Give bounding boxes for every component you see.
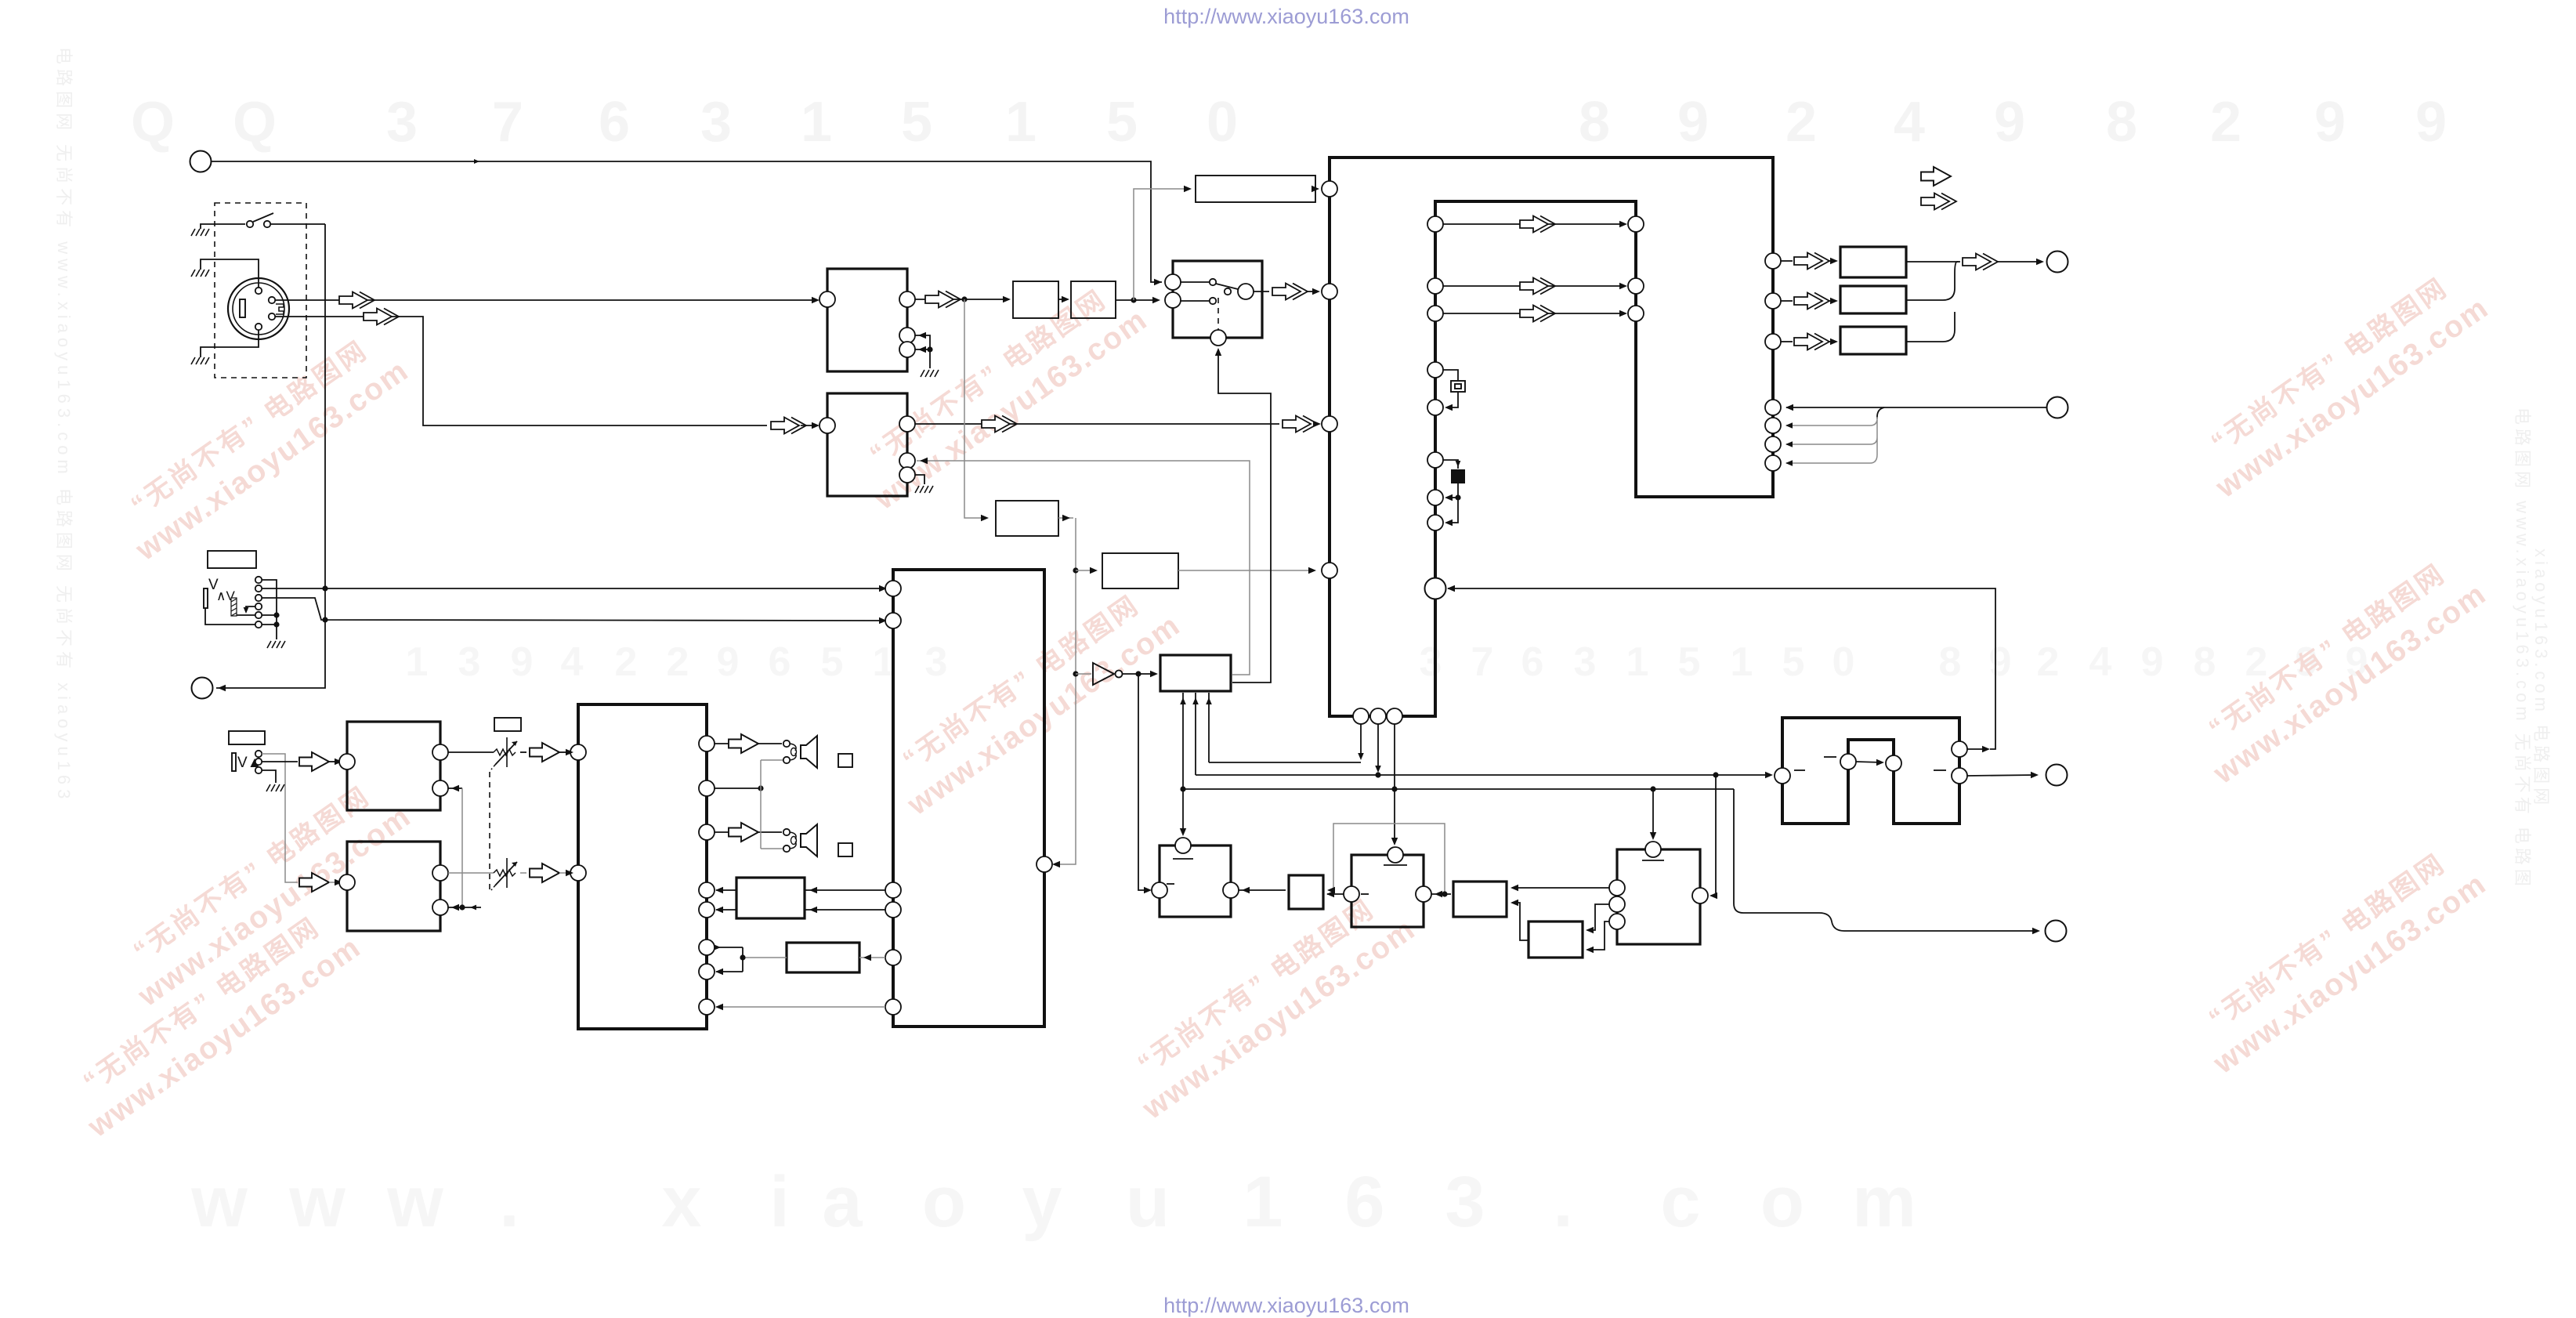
svg-text:9: 9: [2415, 91, 2447, 154]
J right pin: [1692, 888, 1708, 903]
svg-text:i: i: [769, 1162, 790, 1242]
U1 bite-right pins: [1628, 216, 1644, 232]
svg-text:9: 9: [1989, 639, 2012, 685]
svg-text:Q: Q: [131, 91, 175, 154]
G minus marks: [1384, 864, 1407, 866]
P1 left pin: [1775, 768, 1790, 784]
SB contact c1: [1210, 279, 1216, 285]
F right pin: [1223, 882, 1239, 898]
ground G1: [191, 229, 209, 236]
J left pins: [1609, 880, 1625, 896]
SB dashed control link: [1217, 298, 1219, 330]
left block U4: [578, 704, 707, 1029]
svg-text:u: u: [1126, 1162, 1170, 1242]
volume VR1: [491, 737, 517, 769]
rect A deemphasis: [1013, 281, 1058, 318]
svg-text:3: 3: [458, 639, 481, 685]
output merge wires: [1906, 261, 1959, 263]
svg-text:3: 3: [1574, 639, 1597, 685]
wire from x415 bus down to T2: [216, 224, 325, 688]
wire U4 to SP1: [715, 743, 782, 744]
svg-text:5: 5: [1678, 639, 1701, 685]
svg-text:0: 0: [1833, 639, 1855, 685]
feedback wire main: [1786, 407, 2046, 408]
XLR notch: [276, 304, 284, 314]
svg-text:3: 3: [700, 91, 732, 154]
svg-text:9: 9: [2314, 91, 2346, 154]
switch block SB: [1173, 261, 1262, 338]
rect H: [1289, 875, 1323, 909]
wire XLR pin3 to block B2: [275, 317, 767, 425]
filter rect R3: [1840, 327, 1906, 354]
label box LB1: [208, 551, 256, 568]
ground G4: [267, 641, 285, 648]
svg-text:2: 2: [615, 639, 638, 685]
wire inverter out to rect D: [1123, 673, 1156, 675]
bottom wire U3 to U4: [716, 1006, 885, 1008]
line to terminal T6: [1734, 789, 2037, 931]
L1/L2 feedback link: [448, 788, 462, 789]
rect C: [996, 501, 1058, 536]
wire contact6 sleeve: [205, 608, 255, 625]
jack J3 contacts: [255, 751, 262, 757]
block F: [1160, 845, 1231, 917]
B2 ground: [915, 475, 924, 484]
ganged dashed link: [489, 772, 490, 889]
svg-text:7: 7: [1471, 639, 1494, 685]
svg-text:w: w: [386, 1162, 443, 1242]
block B2: [827, 393, 907, 496]
wire P1 to terminal T5: [1967, 775, 2035, 776]
watermark faint vertical side text: [54, 47, 2551, 890]
wire switch to bus: [270, 223, 325, 225]
filter rect R1: [1840, 247, 1906, 277]
J jog wires to K: [1587, 904, 1609, 930]
wire B to switch: [1116, 299, 1158, 301]
svg-text:7: 7: [492, 91, 523, 154]
wire G right to rect I: [1431, 893, 1451, 895]
svg-text:http://www.xiaoyu163.com: http://www.xiaoyu163.com: [1163, 1294, 1409, 1317]
wire U4 to SP2: [715, 831, 782, 833]
drop from B1-out junction to rect C: [964, 299, 986, 518]
rect B: [1071, 281, 1116, 318]
resonator X2 (filled): [1443, 460, 1458, 469]
watermark gray letters bottom www.xiaoyu163.com: [190, 1162, 1916, 1242]
svg-text:1: 1: [406, 639, 429, 685]
svg-text:Q: Q: [233, 91, 277, 154]
rect TR: [1196, 176, 1315, 202]
J top pin: [1645, 842, 1661, 857]
svg-text:9: 9: [1677, 91, 1709, 154]
svg-text:8: 8: [2194, 639, 2216, 685]
crystal X1: [1443, 370, 1458, 380]
jack J2 sleeve bar: [204, 588, 208, 608]
SB contact stubs: [1181, 281, 1210, 283]
G feedback loop: [1329, 824, 1445, 894]
power block P1 outline: [1782, 718, 1959, 824]
svg-text:6: 6: [769, 639, 791, 685]
box N: [787, 943, 859, 972]
svg-text:9: 9: [511, 639, 534, 685]
line Y989: [1196, 774, 1771, 776]
wire B2 out to big block pin: [915, 423, 1279, 425]
svg-text:1: 1: [1626, 639, 1649, 685]
block L1: [347, 722, 440, 810]
svg-text:6: 6: [1344, 1162, 1384, 1242]
svg-text:xiaoyu163.com 电路图网: xiaoyu163.com 电路图网: [2531, 549, 2551, 809]
switch S1 lever: [253, 213, 273, 222]
SB pin in2: [1165, 292, 1181, 308]
svg-text:.: .: [1553, 1162, 1573, 1242]
L1 pins: [339, 754, 355, 769]
center block U3: [893, 570, 1044, 1027]
F minus marks: [1173, 858, 1193, 860]
wire bus to rect E: [1076, 570, 1095, 571]
wire K to I riser: [1512, 903, 1529, 940]
XLR pin 3: [269, 313, 275, 320]
wire contact1 to ground bus: [262, 580, 277, 639]
line Y973: [1209, 762, 1361, 763]
B2 pin out: [899, 416, 915, 432]
wire W1 from T1 to switch block: [212, 161, 1162, 282]
svg-text:0: 0: [1207, 91, 1238, 154]
wire A to B: [1058, 299, 1067, 300]
rect D bottom stubs: [1182, 693, 1184, 835]
terminal T1 top-left: [190, 151, 212, 172]
bite link wires with arrows: [1443, 223, 1625, 225]
svg-text:3: 3: [1445, 1162, 1485, 1242]
svg-text:8: 8: [1939, 639, 1962, 685]
svg-text:2: 2: [2210, 91, 2241, 154]
svg-text:电路图网 www.xiaoyu163.com 无尚不有 电路: 电路图网 www.xiaoyu163.com 无尚不有 电路图: [2513, 407, 2532, 890]
terminal T2 left-middle: [192, 678, 213, 699]
svg-text:1: 1: [1005, 91, 1037, 154]
SB contact c2: [1210, 298, 1216, 304]
wire P1 to DAI (W2): [1967, 748, 1987, 750]
svg-text:1: 1: [1731, 639, 1753, 685]
wire L2 out through volume VR2: [448, 872, 494, 874]
B2 pin gnd: [899, 467, 915, 483]
U1 DAI pin circle: [1425, 578, 1446, 599]
U3 left pins: [885, 581, 901, 596]
inverter U2: [1093, 663, 1114, 685]
ground G3: [191, 357, 209, 364]
U4 left pins: [570, 744, 586, 760]
svg-text:.: .: [499, 1162, 519, 1242]
wire contact2 to center block pin (y751): [262, 588, 884, 589]
watermark gray letter row top: [131, 91, 2447, 154]
U1 left pins: [1322, 181, 1337, 197]
bus x1373 down to center block right pin: [1054, 518, 1076, 864]
wire B1 out to rect A/B chain: [915, 299, 1009, 300]
svg-text:m: m: [1852, 1162, 1916, 1242]
speaker SP2: [783, 824, 817, 856]
feedback branches: [1877, 407, 1884, 418]
P1 slot arrow: [1856, 762, 1882, 762]
wire contact5 from hatch: [237, 614, 255, 616]
B2 feedback wire from rect D via x1595: [917, 461, 1250, 675]
svg-text:a: a: [822, 1162, 863, 1242]
U1 pin stub x1737: [1360, 724, 1362, 758]
switch S1 contacts: [247, 221, 253, 227]
svg-text:4: 4: [1894, 91, 1925, 154]
wire J3 tip to block L2 (gray loop): [262, 754, 298, 882]
svg-text:5: 5: [901, 91, 932, 154]
wire C out to x1373 bus: [1058, 517, 1073, 519]
terminal T4 feedback in: [2047, 397, 2068, 418]
svg-text:c: c: [1660, 1162, 1700, 1242]
wire L1 out through volume VR1: [448, 751, 494, 753]
svg-text:9: 9: [717, 639, 740, 685]
svg-text:http://www.xiaoyu163.com: http://www.xiaoyu163.com: [1163, 5, 1409, 28]
P1 slot pins: [1840, 754, 1856, 769]
svg-text:电路图网 无尚不有 www.xiaoyu163.com 电路: 电路图网 无尚不有 www.xiaoyu163.com 电路图网 无尚不有 xi…: [54, 47, 74, 803]
U3 right pin: [1037, 856, 1052, 872]
U1 pin stub x1759: [1377, 724, 1379, 770]
svg-text:9: 9: [1994, 91, 2025, 154]
SB pole: [1238, 284, 1254, 299]
svg-text:y: y: [1022, 1162, 1062, 1242]
block G: [1351, 855, 1424, 927]
XLR pin 2: [269, 297, 275, 303]
G right pin: [1416, 886, 1431, 902]
U4 right pins: [699, 736, 715, 751]
L2 pins: [339, 874, 355, 890]
watermark pink rotated stamps: [107, 323, 414, 568]
svg-text:5: 5: [1782, 639, 1805, 685]
drop to block J: [1652, 789, 1654, 838]
terminal T5: [2046, 765, 2068, 786]
B1 pin in: [819, 291, 835, 307]
wire junction down to block F left pin: [1138, 674, 1149, 890]
U1 bottom pins: [1353, 708, 1369, 724]
F top pin: [1175, 838, 1191, 853]
jack J2 hatch bar: [231, 598, 237, 616]
SB pin in1: [1165, 274, 1181, 290]
filter rect R2: [1840, 286, 1906, 313]
XLR pin 4: [255, 324, 262, 330]
wire J pin1 to I: [1512, 887, 1609, 889]
svg-text:2: 2: [1785, 91, 1817, 154]
svg-text:2: 2: [667, 639, 689, 685]
rect K: [1529, 922, 1583, 958]
drop to block G: [1394, 789, 1395, 844]
U1 bite-left pins: [1427, 216, 1443, 232]
ground G2: [191, 270, 209, 277]
svg-text:2: 2: [2037, 639, 2060, 685]
wire F right to rect H: [1239, 889, 1286, 891]
box M wires: [805, 889, 885, 891]
wire contact3 to center block pin (y792): [262, 598, 884, 621]
jack J2 contacts: [255, 577, 262, 583]
svg-text:w: w: [288, 1162, 346, 1242]
svg-text:6: 6: [599, 91, 630, 154]
label box LB3: [494, 718, 521, 731]
volume VR2: [491, 858, 517, 890]
G top pin: [1387, 847, 1403, 863]
dashed enclosure XLR connector: [215, 203, 306, 378]
svg-text:8: 8: [2106, 91, 2137, 154]
line Y1007: [1183, 788, 1734, 790]
svg-text:6: 6: [1521, 639, 1544, 685]
terminal T3 audio out: [2047, 252, 2068, 273]
wire contact4 link: [246, 606, 255, 612]
lone arrow S1: [1921, 167, 1951, 186]
connector XLR outer: [228, 278, 289, 339]
wire Y989 drop to J right pin: [1711, 775, 1716, 896]
svg-text:3: 3: [1420, 639, 1442, 685]
wire G left pin to H: [1327, 893, 1344, 895]
block B1: [827, 269, 907, 371]
wire E out to big block: [1178, 570, 1313, 571]
svg-text:5: 5: [1106, 91, 1138, 154]
watermark gray digit row middle: [406, 639, 2368, 685]
U1 right pins: [1765, 253, 1781, 269]
rect E: [1102, 553, 1178, 588]
U1 right stubs to filters: [1781, 260, 1793, 262]
G left pin: [1344, 886, 1359, 902]
B1 pin g1: [899, 328, 915, 343]
speaker SP1: [783, 736, 817, 768]
P1 right pins: [1952, 741, 1967, 757]
J minus mark: [1642, 860, 1664, 861]
svg-text:8: 8: [1579, 91, 1610, 154]
big block U1 outline: [1330, 158, 1773, 716]
speaker return bus: [715, 788, 761, 789]
svg-text:3: 3: [386, 91, 418, 154]
svg-text:1: 1: [1243, 1162, 1283, 1242]
svg-text:1: 1: [801, 91, 832, 154]
box M: [736, 878, 805, 918]
B1 ground wiring: [915, 335, 930, 368]
square MT2: [838, 843, 852, 856]
wire XLR pin2 to block B1: [275, 299, 816, 301]
B1 pin g2: [899, 342, 915, 357]
jack J3 bar: [232, 753, 236, 771]
svg-text:w: w: [190, 1162, 248, 1242]
B2 pin in: [819, 418, 835, 433]
square MT1: [838, 754, 852, 767]
rect D (system control): [1160, 655, 1231, 691]
wire J3 ring to block L1: [262, 761, 298, 762]
svg-text:4: 4: [2089, 639, 2112, 685]
ground G5: [262, 770, 276, 783]
svg-text:3: 3: [925, 639, 948, 685]
svg-text:4: 4: [561, 639, 584, 685]
B1 pin out: [899, 291, 915, 307]
lone arrow S2: [1921, 194, 1956, 210]
box N wires: [859, 957, 885, 958]
B2 pin fb: [899, 453, 915, 469]
P1 minus marks: [1794, 769, 1805, 771]
U1 pin stub x1780: [1394, 724, 1395, 789]
XLR key slot: [240, 299, 245, 317]
arrow into L2: [299, 873, 329, 892]
SB control wire from rect D via x1622: [1218, 349, 1271, 683]
SB lever: [1216, 284, 1241, 290]
block L2: [347, 842, 440, 931]
riser to top rect TR: [1134, 189, 1189, 300]
arrow into L1: [299, 752, 329, 771]
junction dots jack ground bus: [273, 612, 279, 617]
label box LB2: [229, 731, 265, 744]
svg-text:o: o: [1760, 1162, 1804, 1242]
SB control pin: [1210, 330, 1226, 346]
svg-text:o: o: [922, 1162, 966, 1242]
svg-text:9: 9: [2141, 639, 2164, 685]
svg-text:x: x: [661, 1162, 701, 1242]
XLR pin 1: [255, 288, 262, 294]
rect I: [1453, 882, 1507, 917]
terminal T6: [2046, 921, 2067, 942]
block J: [1617, 849, 1700, 944]
wire TR to big block pin: [1315, 188, 1318, 190]
svg-text:5: 5: [821, 639, 844, 685]
SB output wire: [1254, 291, 1269, 292]
F left pin: [1152, 882, 1167, 898]
